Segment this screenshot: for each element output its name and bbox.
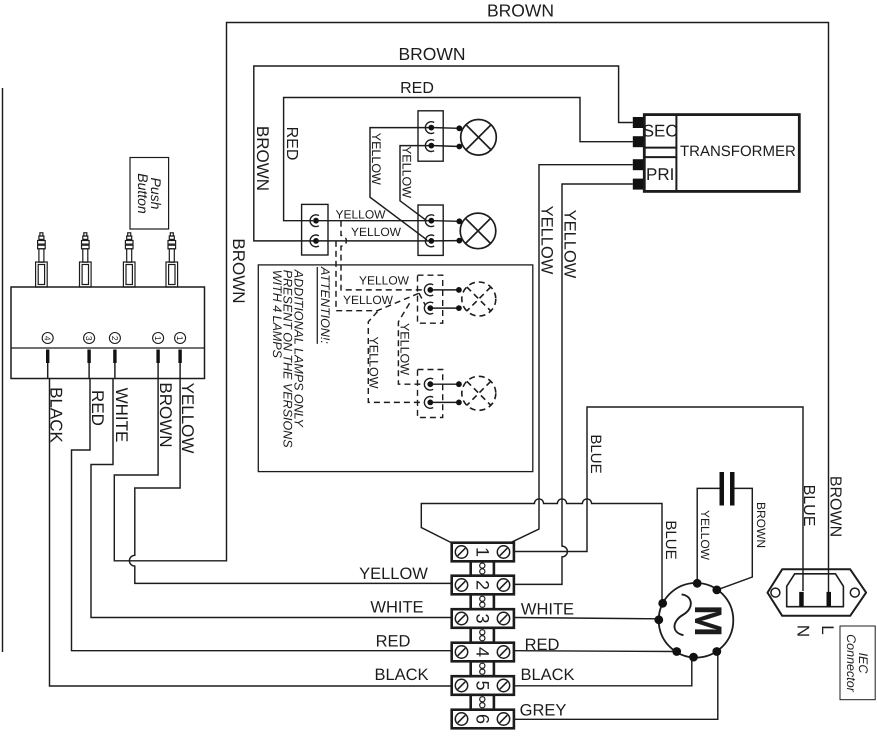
wire yellow bus bottom (holder to holder) xyxy=(316,240,431,242)
svg-text:BROWN: BROWN xyxy=(754,502,768,548)
svg-text:YELLOW: YELLOW xyxy=(538,206,556,275)
dashed wire V1 to lower dashed holder pin2 xyxy=(368,312,425,403)
svg-text:RED: RED xyxy=(283,127,300,161)
button 4 xyxy=(166,233,178,287)
svg-text:BROWN: BROWN xyxy=(487,1,554,21)
capacitor C1 plate 1 xyxy=(720,472,725,506)
motor AC tilde xyxy=(674,594,690,635)
svg-text:SEC: SEC xyxy=(643,122,678,141)
switch terminal 2 xyxy=(109,333,120,344)
lamp L1 xyxy=(461,120,497,156)
wire yellow from switch t1b with hop xyxy=(129,363,451,583)
wire blue bus with hops (terminal 1 to motor) xyxy=(421,499,662,601)
transformer pin SEC1 xyxy=(633,117,644,128)
IEC mounting hole left xyxy=(771,588,780,597)
wire red: lamp common to transformer SEC pin 2 xyxy=(284,98,633,221)
svg-text:L: L xyxy=(818,625,837,634)
left holder terminal top xyxy=(310,215,319,227)
button 1 xyxy=(36,233,48,287)
svg-text:BROWN: BROWN xyxy=(253,126,272,191)
dashed lamp holder 4 box xyxy=(418,370,443,418)
IEC inner socket xyxy=(787,574,844,607)
svg-text:4: 4 xyxy=(472,647,492,657)
wire black terminal 5 to motor xyxy=(514,659,692,686)
svg-text:BROWN: BROWN xyxy=(398,44,465,64)
svg-text:YELLOW: YELLOW xyxy=(351,225,402,239)
svg-text:5: 5 xyxy=(472,680,492,690)
leads to lamp 4 xyxy=(433,383,459,385)
svg-text:N: N xyxy=(794,625,813,637)
svg-text:YELLOW: YELLOW xyxy=(400,146,414,198)
svg-text:YELLOW: YELLOW xyxy=(398,323,412,375)
IEC pin L xyxy=(827,592,832,607)
dashed lamp L3 xyxy=(462,282,496,316)
switch terminal 4 xyxy=(42,333,53,344)
svg-text:BROWN: BROWN xyxy=(229,238,248,303)
terminal 2 section xyxy=(452,576,514,595)
enclosure edge line xyxy=(2,88,4,652)
svg-text:YELLOW: YELLOW xyxy=(698,510,712,561)
svg-text:YELLOW: YELLOW xyxy=(359,565,428,583)
wire yellow PRI pin2 to terminal 2 with hop xyxy=(514,184,633,584)
wire blue terminal 1 to IEC N with hop xyxy=(514,407,803,591)
transformer pin PRI2 xyxy=(633,179,644,190)
wire yellow riser 1: top lamp holder pin1 cross to bottom lamp pin2 xyxy=(370,128,431,240)
IEC connector outline xyxy=(768,569,867,616)
wire yellow riser 2: top lamp holder pin2 cross to bottom lamp pin1 xyxy=(400,146,431,221)
terminal 6 section xyxy=(452,710,514,729)
terminal block neck pin circles xyxy=(480,563,485,708)
svg-text:RED: RED xyxy=(400,80,434,97)
top holder terminal 2 xyxy=(425,140,434,152)
dashed holder 4 terminal 1 xyxy=(424,378,433,390)
svg-text:Button: Button xyxy=(135,173,151,214)
svg-text:2: 2 xyxy=(110,336,120,341)
terminal block necks xyxy=(471,561,494,709)
lamp holder left box xyxy=(302,204,328,255)
svg-text:WHITE: WHITE xyxy=(112,388,131,443)
left holder terminal bottom xyxy=(310,235,319,247)
leads to lamp 1 xyxy=(434,127,459,130)
dashed lamp holder 3 box xyxy=(418,275,443,323)
svg-text:TRANSFORMER: TRANSFORMER xyxy=(680,143,796,160)
svg-text:GREY: GREY xyxy=(520,701,567,719)
transformer pin SEC2 xyxy=(633,136,644,147)
svg-text:2: 2 xyxy=(472,580,492,590)
svg-text:1: 1 xyxy=(175,336,185,341)
svg-text:BLUE: BLUE xyxy=(587,434,604,473)
lamp L2 xyxy=(460,213,496,249)
svg-text:1: 1 xyxy=(153,336,163,341)
dashed holder 3 terminal 1 xyxy=(424,284,433,296)
wire red from switch t3 xyxy=(72,363,452,651)
svg-text:WHITE: WHITE xyxy=(521,601,574,619)
svg-text:M: M xyxy=(686,605,729,637)
svg-text:RED: RED xyxy=(376,633,411,651)
dashed holder 3 terminal 2 xyxy=(424,302,433,314)
lamp holder top-right box xyxy=(418,111,443,161)
push button switch body xyxy=(11,287,205,379)
mid holder terminal 2 xyxy=(425,235,434,247)
wire yellow bus top (holder to holder) xyxy=(316,220,431,222)
dashed wire V2 to lower dashed holder pin1 xyxy=(398,303,425,384)
svg-text:YELLOW: YELLOW xyxy=(367,336,381,388)
wire brown inner loop: lamp common to transformer SEC pin 1 xyxy=(254,66,633,241)
svg-text:Connector: Connector xyxy=(844,634,858,693)
wire brown capacitor to motor xyxy=(719,488,752,589)
transformer partition xyxy=(675,115,677,192)
button 2 xyxy=(80,233,92,287)
wire yellow PRI pin1 to terminal 1 xyxy=(511,165,633,543)
dashed wire branch A with hop xyxy=(341,221,425,290)
svg-text:BLACK: BLACK xyxy=(47,387,66,443)
transformer pin PRI1 xyxy=(633,159,644,170)
svg-text:YELLOW: YELLOW xyxy=(335,208,386,222)
switch terminal 1a xyxy=(153,333,164,344)
svg-text:PRI: PRI xyxy=(646,165,674,184)
svg-text:BLACK: BLACK xyxy=(520,666,574,684)
terminal stubs xyxy=(48,350,180,364)
svg-text:6: 6 xyxy=(472,714,492,724)
capacitor C1 plate 2 xyxy=(730,472,735,506)
svg-text:ATTENTION!:: ATTENTION!: xyxy=(318,266,332,344)
svg-text:YELLOW: YELLOW xyxy=(178,383,197,454)
IEC connector label box xyxy=(840,626,875,700)
wire red terminal 4 to motor xyxy=(514,650,675,653)
lamp holder mid-right box xyxy=(418,205,443,255)
svg-text:BROWN: BROWN xyxy=(156,382,175,447)
top holder terminal 1 xyxy=(425,122,434,134)
svg-text:YELLOW: YELLOW xyxy=(369,133,383,185)
svg-text:YELLOW: YELLOW xyxy=(359,274,410,288)
switch divider xyxy=(11,347,205,349)
motor terminal dots xyxy=(693,579,702,588)
wire yellow capacitor to motor top xyxy=(697,488,719,581)
svg-text:BLACK: BLACK xyxy=(374,666,428,684)
svg-text:BROWN: BROWN xyxy=(827,476,844,537)
svg-text:YELLOW: YELLOW xyxy=(561,210,579,279)
wire black from switch t4 xyxy=(48,363,452,686)
button 3 xyxy=(123,233,135,287)
svg-text:RED: RED xyxy=(88,390,107,426)
wire grey terminal 6 to motor xyxy=(514,654,718,720)
dashed holder 4 terminal 2 xyxy=(424,396,433,408)
leads to lamp 2 xyxy=(434,220,459,223)
terminal 3 section xyxy=(452,609,514,628)
svg-text:WHITE: WHITE xyxy=(370,599,423,617)
IEC mounting hole right xyxy=(850,588,859,597)
dashed lamp L4 xyxy=(462,376,496,410)
wire brown from switch t1a xyxy=(114,23,828,593)
switch terminal 1b xyxy=(175,333,186,344)
leads to lamp 3 xyxy=(433,289,459,291)
svg-text:4: 4 xyxy=(43,336,53,341)
motor M1 body xyxy=(659,583,734,658)
svg-text:BLUE: BLUE xyxy=(800,485,817,527)
dashed wire branch B xyxy=(336,241,426,311)
terminal 4 section xyxy=(452,643,514,662)
switch terminal 3 xyxy=(84,333,95,344)
svg-text:1: 1 xyxy=(472,547,492,557)
wire white terminal 3 to motor xyxy=(514,618,659,619)
svg-text:BLUE: BLUE xyxy=(662,520,679,559)
push button label box xyxy=(130,158,169,230)
terminal 1 section xyxy=(452,543,514,562)
terminal 5 section xyxy=(452,676,514,695)
attention note box xyxy=(258,265,533,472)
svg-text:YELLOW: YELLOW xyxy=(343,293,394,307)
mid holder terminal 1 xyxy=(425,215,434,227)
svg-text:3: 3 xyxy=(472,613,492,623)
wire white from switch t2 xyxy=(91,363,452,618)
svg-text:RED: RED xyxy=(525,636,560,654)
svg-text:3: 3 xyxy=(84,336,94,341)
IEC pin N xyxy=(799,592,804,607)
svg-text:WITH 4 LAMPS: WITH 4 LAMPS xyxy=(270,270,284,359)
transformer T1 box xyxy=(644,115,799,192)
